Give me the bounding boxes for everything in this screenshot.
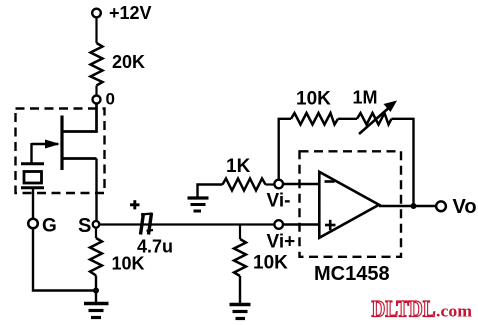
minus input mark xyxy=(325,180,335,183)
resistor 20K xyxy=(91,43,146,86)
svg-text:DLTDL: DLTDL xyxy=(372,297,436,322)
wire Vi+ to op-amp xyxy=(283,223,319,225)
svg-text:20K: 20K xyxy=(112,52,145,72)
wire G to ground bus xyxy=(33,228,94,290)
feedback wire to output xyxy=(392,119,414,206)
wire 20K to node 0 xyxy=(95,86,97,96)
svg-text:10K: 10K xyxy=(296,89,331,110)
terminal Vi+ xyxy=(267,220,296,252)
wire mid resistor to ground xyxy=(239,276,241,304)
plus input mark xyxy=(325,220,336,230)
svg-text:MC1458: MC1458 xyxy=(314,263,390,285)
svg-text:10K: 10K xyxy=(112,254,145,274)
crystal X1 xyxy=(21,164,44,219)
main signal wire S to Vi+ xyxy=(100,223,275,225)
source line of Q1 xyxy=(62,157,97,160)
terminal Vo xyxy=(436,196,476,218)
wire source to node S xyxy=(95,159,97,221)
resistor 10K (feedback) xyxy=(291,89,338,125)
svg-text:4.7u: 4.7u xyxy=(137,237,173,257)
junction (ground bus) xyxy=(93,288,99,294)
ground (below S resistor) xyxy=(84,304,109,318)
resistor 10K (source) xyxy=(90,228,145,276)
svg-text:0: 0 xyxy=(106,90,115,109)
wire 1K to Vi- xyxy=(266,183,275,185)
output wire xyxy=(379,205,437,207)
svg-text:+12V: +12V xyxy=(109,3,152,23)
svg-text:Vo: Vo xyxy=(453,196,477,218)
terminal +12V xyxy=(92,3,151,23)
svg-text:Vi+: Vi+ xyxy=(267,232,296,253)
svg-text:G: G xyxy=(42,216,57,237)
wire Vi- to op-amp xyxy=(283,183,319,185)
terminal G xyxy=(28,216,57,237)
node S xyxy=(78,215,99,237)
gate of Q1 with arrow xyxy=(32,140,61,165)
watermark DLTDL.com xyxy=(372,297,473,322)
resistor 1M (variable) xyxy=(353,88,398,135)
wire +12V to R 20K xyxy=(95,17,97,43)
svg-text:.com: .com xyxy=(436,302,472,321)
wire node 0 to drain xyxy=(62,104,97,132)
svg-text:1M: 1M xyxy=(353,88,378,108)
ground (at 1K) xyxy=(188,185,223,212)
dashed box around JFET oscillator xyxy=(16,109,105,194)
wire between feedback resistors xyxy=(338,118,357,120)
feedback wire up from Vi- xyxy=(279,119,291,180)
resistor 10K (Vi+ to ground) xyxy=(234,225,288,277)
capacitor C1 4.7u xyxy=(130,200,173,256)
svg-text:10K: 10K xyxy=(253,253,288,274)
resistor 1K xyxy=(223,156,266,191)
op-amp dashed box xyxy=(300,151,402,256)
wire S resistor to ground xyxy=(95,276,97,303)
terminal Vi- xyxy=(267,180,291,212)
svg-text:S: S xyxy=(78,215,91,237)
node 0 xyxy=(93,90,115,109)
ground (below mid resistor) xyxy=(230,305,251,319)
svg-text:1K: 1K xyxy=(226,156,251,177)
op-amp U1 triangle xyxy=(319,172,379,238)
svg-text:Vi-: Vi- xyxy=(267,191,291,212)
transistor Q1 JFET channel xyxy=(60,116,63,171)
junction (feedback/output) xyxy=(411,203,417,209)
